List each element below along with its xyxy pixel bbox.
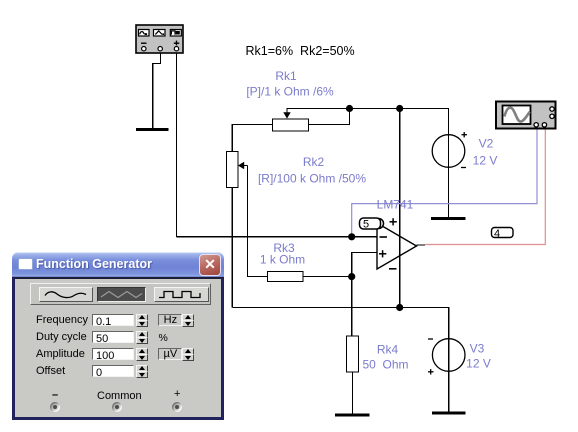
wire: Rk3 left lead to Rk2 wiper [248, 166, 268, 277]
svg-text:4: 4 [494, 228, 500, 240]
node: Rk1 wiper junction [346, 105, 353, 112]
ground (V2) [431, 217, 466, 220]
wire: plus-input [352, 253, 377, 277]
svg-text:1 k Ohm: 1 k Ohm [260, 253, 305, 267]
svg-text:[R]/100 k Ohm /50%: [R]/100 k Ohm /50% [258, 172, 366, 186]
wire: red output to scope B [425, 129, 545, 245]
svg-text:[P]/1 k Ohm /6%: [P]/1 k Ohm /6% [246, 85, 334, 99]
wire: Rk2 bottom lead down [231, 188, 233, 308]
wire: op-amp power rail vertical [399, 109, 401, 308]
op-amp plus (non-inverting input) [379, 250, 386, 257]
op-amp U1 triangle [377, 223, 417, 269]
function generator dialog [12, 252, 224, 420]
resistor Rk2 (pot) [227, 152, 239, 188]
wire: Rk1 right lead up [309, 109, 350, 125]
node: bottom supply junction [396, 304, 403, 311]
function generator icon [136, 25, 183, 53]
svg-text:5: 5 [363, 218, 369, 230]
op-amp minus (bottom supply) [389, 268, 397, 270]
svg-text:Rk1: Rk1 [275, 69, 297, 83]
svg-text:50 Ohm: 50 Ohm [362, 358, 408, 372]
svg-text:V3: V3 [470, 342, 485, 356]
ground (FG common) [136, 128, 169, 131]
wire: op-amp output stub [417, 244, 426, 246]
wire: FG plus terminal down [176, 53, 178, 237]
wire: bottom rail to V3 [232, 308, 448, 414]
wire: Rk4 bottom lead [352, 372, 354, 415]
node 5 junction [348, 233, 355, 240]
svg-text:Rk4: Rk4 [377, 343, 399, 357]
Rk2 wiper arrow [238, 162, 244, 169]
svg-text:12 V: 12 V [473, 154, 498, 168]
source V3 [432, 339, 465, 372]
wire: Rk3 right lead [303, 276, 352, 278]
op-amp minus (inverting input) [380, 236, 388, 238]
Rk1 wiper arrow [283, 112, 290, 118]
wire: Rk2 wiper stem [244, 165, 248, 167]
ground (Rk4) [335, 414, 370, 417]
wire: Rk1 left lead to Rk2 top [232, 125, 272, 152]
ground (V3) [432, 412, 466, 415]
wire: FG common down-left to ground [153, 53, 161, 128]
node 5 box [374, 219, 384, 229]
wire: top rail to V2 [350, 109, 449, 219]
resistor Rk3 [268, 272, 304, 282]
svg-text:12 V: 12 V [466, 357, 491, 371]
svg-text:Rk2: Rk2 [303, 155, 325, 169]
resistor Rk1 (pot) [273, 119, 309, 131]
node 4 box [492, 228, 514, 238]
wire: purple node5 to scope A [352, 129, 537, 237]
svg-text:Rk1=6% Rk2=50%: Rk1=6% Rk2=50% [246, 44, 355, 58]
op-amp plus (top supply) [390, 218, 397, 225]
oscilloscope icon [496, 102, 556, 129]
source V2 [432, 135, 465, 168]
wire: Rk4 branch down [351, 277, 353, 336]
resistor Rk4 [347, 336, 359, 372]
wire: minus-input horizontal [177, 236, 378, 238]
node: plus input junction [348, 273, 355, 280]
svg-text:LM741: LM741 [377, 198, 414, 212]
node: top supply junction [396, 105, 403, 112]
wire: Rk1 wiper stem [287, 109, 350, 114]
svg-text:V2: V2 [479, 137, 494, 151]
